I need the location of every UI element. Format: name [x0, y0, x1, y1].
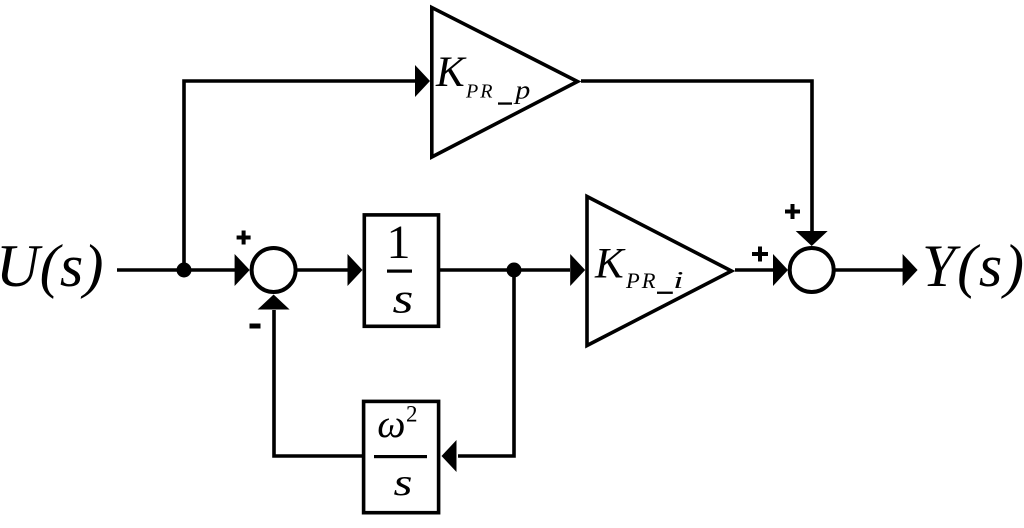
svg-text:Y(s): Y(s)	[922, 233, 1024, 299]
svg-text:s: s	[393, 276, 414, 322]
svg-text:1: 1	[387, 216, 411, 269]
svg-text:i: i	[673, 267, 683, 294]
svg-text:p: p	[513, 76, 530, 105]
svg-text:ω: ω	[377, 401, 405, 446]
svg-text:s: s	[394, 462, 413, 504]
svg-text:U(s): U(s)	[0, 233, 104, 299]
svg-text:K: K	[435, 49, 467, 96]
svg-text:PR: PR	[465, 81, 494, 103]
svg-text:PR: PR	[625, 268, 658, 293]
svg-text:2: 2	[406, 402, 418, 427]
svg-text:K: K	[594, 241, 626, 288]
